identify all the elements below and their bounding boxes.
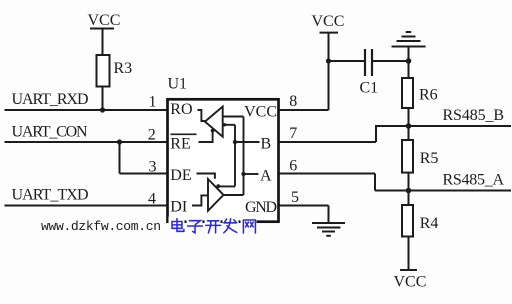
svg-text:VCC: VCC: [88, 12, 121, 29]
watermark chinese dian: [172, 219, 255, 233]
wire RS485_B to R5 top: [408, 126, 410, 140]
svg-text:8: 8: [289, 93, 297, 110]
wire VCC to R3 top: [102, 29, 104, 56]
wire UART_TXD net: [5, 205, 168, 207]
svg-text:R4: R4: [420, 215, 439, 232]
svg-text:RE: RE: [170, 136, 190, 153]
svg-text:R3: R3: [114, 60, 133, 77]
wire pin7 segment: [279, 141, 376, 143]
svg-text:A: A: [260, 168, 272, 185]
svg-text:4: 4: [148, 191, 156, 208]
wire VCC branch to C1 left plate: [329, 60, 366, 62]
junction dot B stub: [233, 140, 237, 144]
wire R5 bottom to RS485_A line: [408, 173, 410, 191]
svg-text:UART_TXD: UART_TXD: [12, 187, 89, 204]
junction dot R5/R4/RS485_A: [406, 188, 412, 194]
watermark halo: [169, 217, 257, 237]
watermark chinese wang: [243, 220, 255, 233]
wire driver output tip to vertical: [224, 194, 244, 196]
wire RS485_B net: [376, 125, 511, 127]
wire R6 bottom to RS485_B line: [408, 108, 410, 126]
wire left vertical elbow to driver edge: [218, 185, 235, 187]
svg-text:1: 1: [149, 94, 157, 111]
resistor R4: [402, 205, 413, 237]
wire B stub: [235, 141, 260, 143]
wire RS485_A to R4 top: [408, 191, 410, 206]
wire DE pin3 segment: [120, 173, 168, 175]
svg-text:RS485_B: RS485_B: [443, 107, 505, 124]
wire C1 right plate to ground node: [373, 60, 409, 62]
junction dot receiver enable: [211, 129, 215, 133]
watermark chinese zi: [188, 221, 203, 233]
svg-text:R5: R5: [420, 150, 439, 167]
wire pin7 elbow up: [375, 125, 377, 142]
junction dot R6/R5/RS485_B: [406, 123, 412, 129]
wire ground to R6 vertical: [408, 47, 410, 79]
wire receiver lower input stub: [224, 124, 235, 126]
svg-text:VCC: VCC: [394, 274, 427, 291]
wire UART_CON to DE vertical: [119, 142, 121, 174]
svg-text:RS485_A: RS485_A: [443, 172, 505, 189]
svg-text:DI: DI: [170, 199, 187, 216]
svg-text:DE: DE: [170, 167, 191, 184]
watermark chinese fa: [224, 219, 237, 233]
wire pin6 segment: [279, 173, 375, 175]
resistor R5: [402, 140, 413, 173]
wire RE to receiver enable: [199, 131, 213, 142]
svg-text:B: B: [261, 136, 272, 153]
wire pin6 elbow down: [374, 174, 376, 191]
junction dot R3/UART_RXD: [100, 107, 105, 112]
wire R4 bottom to VCC bottom: [408, 237, 410, 271]
svg-text:C1: C1: [360, 80, 379, 97]
svg-text:UART_CON: UART_CON: [12, 124, 88, 141]
wire UART_CON net: [5, 141, 168, 143]
svg-text:2: 2: [148, 127, 156, 144]
svg-text:R6: R6: [419, 87, 438, 104]
wire receiver upper input stub: [223, 116, 244, 118]
svg-text:7: 7: [289, 125, 297, 142]
junction dot receiver lower stub: [223, 123, 226, 126]
svg-text:6: 6: [289, 158, 297, 175]
svg-text:UART_RXD: UART_RXD: [12, 91, 89, 108]
wire DI to driver input: [192, 195, 208, 205]
wire R3 bottom to UART_RXD: [102, 87, 104, 111]
wire pin8 to VCC vertical: [279, 109, 329, 111]
wire RO to receiver tip: [198, 110, 205, 121]
junction dot C1/ground/R6: [406, 58, 412, 64]
capacitor C1 plates: [364, 49, 366, 76]
power VCC terminal top right (tick): [320, 32, 339, 34]
driver buffer (points right): [208, 179, 224, 211]
wire pin5 to ground: [279, 205, 329, 207]
svg-text:VCC: VCC: [244, 104, 277, 121]
svg-text:3: 3: [149, 159, 157, 176]
svg-text:VCC: VCC: [312, 13, 345, 30]
resistor R3: [97, 55, 110, 87]
junction dot VCC/C1 branch: [326, 58, 331, 63]
svg-text:5: 5: [291, 189, 299, 206]
watermark chinese kai: [206, 221, 221, 233]
junction dot UART_CON/DE: [117, 139, 122, 144]
ground symbol bottom (earth): [312, 223, 345, 236]
receiver buffer (points left): [205, 107, 223, 137]
wire A stub: [244, 173, 259, 175]
wire left inner vertical (B net): [234, 125, 236, 187]
junction dot A stub: [241, 172, 245, 176]
ground symbol top right (inverted earth): [392, 32, 426, 47]
svg-text:RO: RO: [170, 101, 192, 118]
IC U1 box: [168, 99, 279, 221]
wire DE to driver enable: [197, 174, 215, 179]
junction dot driver edge: [216, 184, 220, 188]
svg-text:U1: U1: [168, 76, 188, 93]
svg-text:www.dzkfw.com.cn: www.dzkfw.com.cn: [41, 219, 161, 234]
power VCC terminal bottom (tick): [400, 269, 417, 271]
wire RS485_A net: [375, 190, 511, 192]
resistor R6: [402, 78, 413, 108]
wire UART_RXD net: [5, 109, 168, 111]
svg-text:GND: GND: [245, 199, 277, 216]
power VCC terminal left (tick): [90, 28, 114, 30]
wire right inner vertical (A net): [243, 117, 245, 196]
